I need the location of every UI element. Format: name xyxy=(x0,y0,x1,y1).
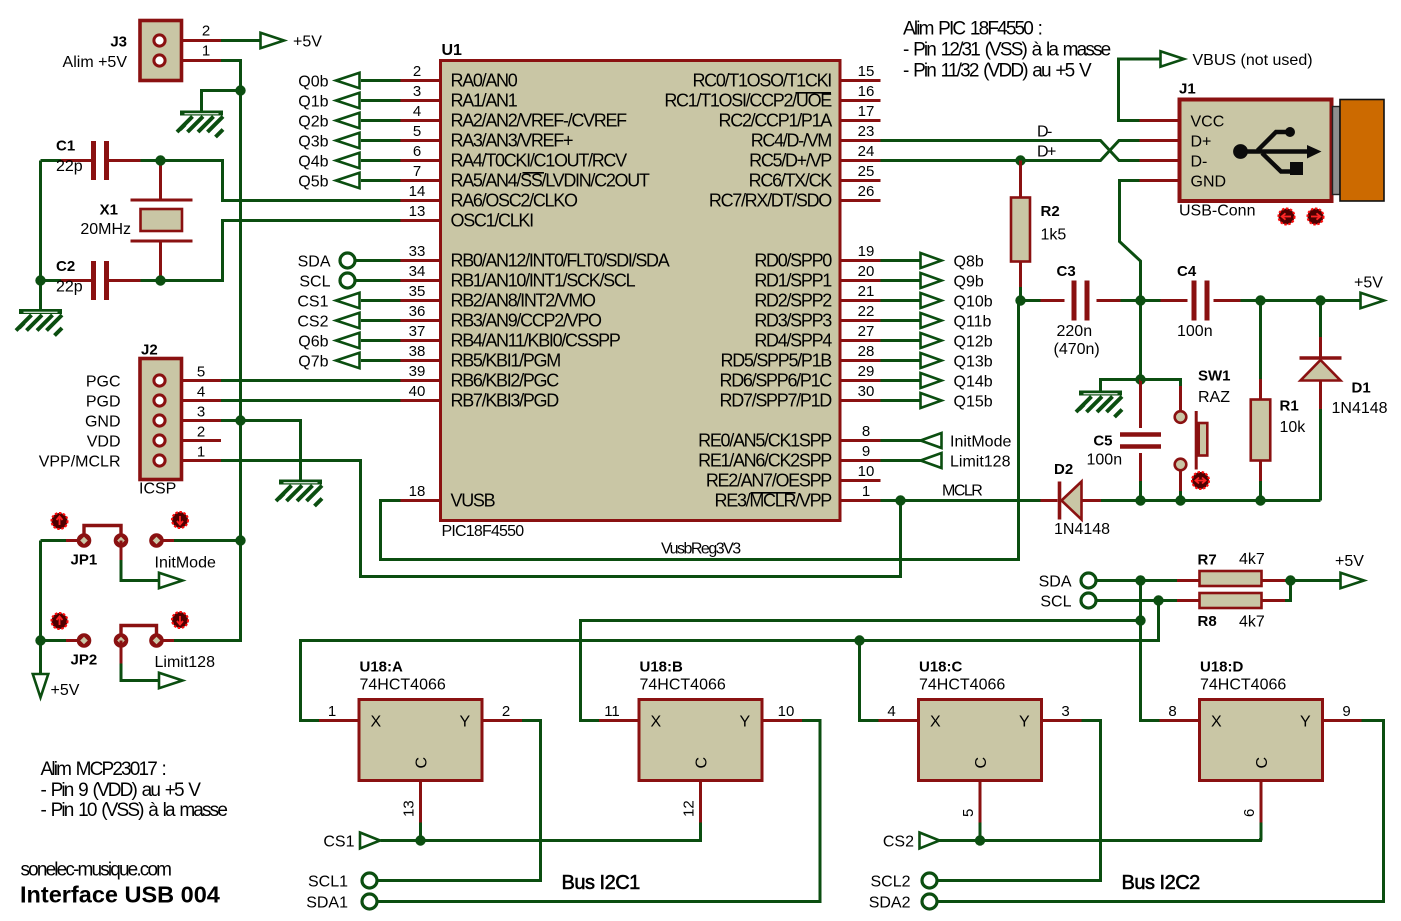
svg-text:+5V: +5V xyxy=(293,34,322,51)
svg-text:C: C xyxy=(414,757,431,769)
svg-text:RB5/KBI1/PGM: RB5/KBI1/PGM xyxy=(451,351,561,371)
svg-text:4k7: 4k7 xyxy=(1239,551,1265,568)
svg-text:D+: D+ xyxy=(1191,134,1212,151)
svg-text:Q13b: Q13b xyxy=(954,354,993,371)
svg-text:5: 5 xyxy=(197,364,205,381)
svg-text:3: 3 xyxy=(1061,703,1069,720)
svg-text:1k5: 1k5 xyxy=(1041,227,1067,244)
svg-text:X1: X1 xyxy=(100,202,118,219)
svg-text:7: 7 xyxy=(413,163,421,180)
svg-text:10k: 10k xyxy=(1280,419,1307,436)
svg-text:Q14b: Q14b xyxy=(954,374,993,391)
svg-text:22p: 22p xyxy=(56,158,83,175)
svg-text:X: X xyxy=(371,714,382,731)
svg-text:C5: C5 xyxy=(1093,433,1112,450)
svg-text:J3: J3 xyxy=(110,34,127,51)
svg-text:D1: D1 xyxy=(1352,380,1371,397)
svg-text:RC5/D+/VP: RC5/D+/VP xyxy=(749,151,832,171)
svg-text:18: 18 xyxy=(409,483,426,500)
svg-text:U18:D: U18:D xyxy=(1200,659,1244,676)
svg-text:PGD: PGD xyxy=(86,394,121,411)
svg-text:RE1/AN6/CK2SPP: RE1/AN6/CK2SPP xyxy=(698,451,832,471)
svg-text:OSC1/CLKI: OSC1/CLKI xyxy=(451,211,534,231)
svg-text:5: 5 xyxy=(413,123,421,140)
svg-text:Interface USB 004: Interface USB 004 xyxy=(20,882,220,908)
svg-text:Q15b: Q15b xyxy=(954,394,993,411)
svg-text:Y: Y xyxy=(1019,714,1030,731)
svg-text:5: 5 xyxy=(960,809,977,817)
svg-text:Alim MCP23017 :: Alim MCP23017 : xyxy=(41,759,166,780)
svg-text:9: 9 xyxy=(862,443,870,460)
svg-text:SCL: SCL xyxy=(1040,594,1071,611)
svg-text:J2: J2 xyxy=(141,342,158,359)
svg-text:RAZ: RAZ xyxy=(1198,389,1230,406)
svg-text:22p: 22p xyxy=(56,279,83,296)
svg-text:Q3b: Q3b xyxy=(298,134,328,151)
svg-text:SCL: SCL xyxy=(299,274,330,291)
svg-text:1: 1 xyxy=(328,703,336,720)
svg-text:SDA: SDA xyxy=(1039,574,1072,591)
svg-text:R2: R2 xyxy=(1041,203,1060,220)
svg-text:RD4/SPP4: RD4/SPP4 xyxy=(754,331,832,351)
svg-text:SCL2: SCL2 xyxy=(870,874,910,891)
svg-text:RD0/SPP0: RD0/SPP0 xyxy=(754,251,832,271)
svg-text:27: 27 xyxy=(858,323,875,340)
svg-text:16: 16 xyxy=(858,83,875,100)
svg-text:C2: C2 xyxy=(56,258,75,275)
svg-text:8: 8 xyxy=(1168,703,1176,720)
svg-text:RB1/AN10/INT1/SCK/SCL: RB1/AN10/INT1/SCK/SCL xyxy=(451,271,636,291)
svg-text:4: 4 xyxy=(197,384,205,401)
svg-text:VCC: VCC xyxy=(1191,114,1225,131)
svg-text:X: X xyxy=(930,714,941,731)
svg-text:26: 26 xyxy=(858,183,875,200)
svg-text:RA0/AN0: RA0/AN0 xyxy=(451,71,518,91)
svg-text:CS2: CS2 xyxy=(883,834,914,851)
svg-text:38: 38 xyxy=(409,343,426,360)
svg-text:+5V: +5V xyxy=(51,682,80,699)
svg-text:74HCT4066: 74HCT4066 xyxy=(360,677,446,694)
svg-text:RB4/AN11/KBI0/CSSPP: RB4/AN11/KBI0/CSSPP xyxy=(451,331,621,351)
svg-text:PGC: PGC xyxy=(86,374,121,391)
svg-text:2: 2 xyxy=(202,23,210,40)
svg-text:4: 4 xyxy=(887,703,895,720)
svg-text:+5V: +5V xyxy=(1335,553,1364,570)
svg-text:1N4148: 1N4148 xyxy=(1054,521,1110,538)
svg-text:GND: GND xyxy=(85,414,121,431)
svg-text:- Pin 9 (VDD) au +5 V: - Pin 9 (VDD) au +5 V xyxy=(41,780,202,801)
svg-text:Q1b: Q1b xyxy=(298,94,328,111)
svg-text:25: 25 xyxy=(858,163,875,180)
svg-text:74HCT4066: 74HCT4066 xyxy=(919,677,1005,694)
svg-text:15: 15 xyxy=(858,63,875,80)
svg-text:VusbReg3V3: VusbReg3V3 xyxy=(661,541,741,558)
svg-text:D-: D- xyxy=(1037,124,1052,141)
svg-text:CS1: CS1 xyxy=(297,294,328,311)
svg-text:29: 29 xyxy=(858,363,875,380)
svg-text:2: 2 xyxy=(197,424,205,441)
svg-text:2: 2 xyxy=(413,63,421,80)
svg-text:Q9b: Q9b xyxy=(954,274,984,291)
svg-text:33: 33 xyxy=(409,243,426,260)
svg-text:Q0b: Q0b xyxy=(298,74,328,91)
svg-text:Alim +5V: Alim +5V xyxy=(63,54,128,71)
svg-text:RD5/SPP5/P1B: RD5/SPP5/P1B xyxy=(721,351,833,371)
svg-text:RC7/RX/DT/SDO: RC7/RX/DT/SDO xyxy=(709,191,832,211)
svg-text:Y: Y xyxy=(1300,714,1311,731)
svg-text:JP2: JP2 xyxy=(71,652,98,669)
svg-text:10: 10 xyxy=(858,463,875,480)
svg-text:24: 24 xyxy=(858,143,875,160)
svg-text:Q4b: Q4b xyxy=(298,154,328,171)
svg-text:Q7b: Q7b xyxy=(298,354,328,371)
svg-text:Q8b: Q8b xyxy=(954,254,984,271)
svg-text:InitMode: InitMode xyxy=(950,434,1011,451)
svg-text:220n: 220n xyxy=(1057,323,1093,340)
svg-text:RA6/OSC2/CLKO: RA6/OSC2/CLKO xyxy=(451,191,578,211)
svg-text:1: 1 xyxy=(862,483,870,500)
svg-text:C: C xyxy=(1254,757,1271,769)
svg-text:SCL1: SCL1 xyxy=(308,874,348,891)
svg-text:Q10b: Q10b xyxy=(954,294,993,311)
svg-text:13: 13 xyxy=(401,800,418,817)
svg-text:RB6/KBI2/PGC: RB6/KBI2/PGC xyxy=(451,371,560,391)
svg-text:20MHz: 20MHz xyxy=(80,221,131,238)
svg-text:3: 3 xyxy=(413,83,421,100)
svg-text:RE2/AN7/OESPP: RE2/AN7/OESPP xyxy=(706,471,832,491)
svg-text:sonelec-musique.com: sonelec-musique.com xyxy=(21,860,172,881)
svg-text:J1: J1 xyxy=(1179,81,1196,98)
svg-text:4: 4 xyxy=(413,103,421,120)
svg-text:SDA1: SDA1 xyxy=(306,895,348,912)
svg-text:20: 20 xyxy=(858,263,875,280)
svg-text:100n: 100n xyxy=(1087,452,1123,469)
svg-text:CS1: CS1 xyxy=(323,834,354,851)
svg-text:CS2: CS2 xyxy=(297,314,328,331)
svg-text:- Pin 11/32 (VDD) au +5 V: - Pin 11/32 (VDD) au +5 V xyxy=(903,61,1092,82)
svg-text:X: X xyxy=(1211,714,1222,731)
svg-text:U18:B: U18:B xyxy=(640,659,684,676)
svg-text:11: 11 xyxy=(604,703,620,720)
svg-text:RD7/SPP7/P1D: RD7/SPP7/P1D xyxy=(720,391,833,411)
svg-text:28: 28 xyxy=(858,343,875,360)
svg-text:74HCT4066: 74HCT4066 xyxy=(1200,677,1286,694)
svg-text:RC2/CCP1/P1A: RC2/CCP1/P1A xyxy=(719,111,833,131)
svg-text:R7: R7 xyxy=(1198,552,1217,569)
svg-text:1: 1 xyxy=(202,43,210,60)
svg-text:R1: R1 xyxy=(1280,398,1299,415)
svg-text:12: 12 xyxy=(681,800,698,817)
svg-text:Q11b: Q11b xyxy=(954,314,992,331)
svg-text:RD3/SPP3: RD3/SPP3 xyxy=(754,311,832,331)
svg-text:SW1: SW1 xyxy=(1198,368,1231,385)
svg-text:PIC18F4550: PIC18F4550 xyxy=(442,523,525,540)
svg-text:+5V: +5V xyxy=(1354,275,1383,292)
svg-text:21: 21 xyxy=(858,283,875,300)
svg-text:C4: C4 xyxy=(1177,263,1197,280)
svg-text:D+: D+ xyxy=(1037,144,1056,161)
svg-text:40: 40 xyxy=(409,383,426,400)
svg-text:- Pin 10 (VSS) à la masse: - Pin 10 (VSS) à la masse xyxy=(41,800,228,821)
svg-text:14: 14 xyxy=(409,183,426,200)
svg-text:RA3/AN3/VREF+: RA3/AN3/VREF+ xyxy=(451,131,573,151)
svg-text:(470n): (470n) xyxy=(1054,341,1100,358)
svg-text:100n: 100n xyxy=(1177,323,1213,340)
svg-text:RA5/AN4/SS/LVDIN/C2OUT: RA5/AN4/SS/LVDIN/C2OUT xyxy=(451,171,650,191)
svg-text:Bus I2C1: Bus I2C1 xyxy=(562,872,641,894)
svg-text:RE0/AN5/CK1SPP: RE0/AN5/CK1SPP xyxy=(698,431,832,451)
svg-text:SDA2: SDA2 xyxy=(869,895,911,912)
svg-text:RB7/KBI3/PGD: RB7/KBI3/PGD xyxy=(451,391,560,411)
svg-text:Limit128: Limit128 xyxy=(155,654,216,671)
svg-text:D-: D- xyxy=(1191,154,1208,171)
svg-text:D2: D2 xyxy=(1054,461,1073,478)
svg-text:34: 34 xyxy=(409,263,426,280)
svg-text:36: 36 xyxy=(409,303,426,320)
svg-text:13: 13 xyxy=(409,203,426,220)
svg-text:RA1/AN1: RA1/AN1 xyxy=(451,91,518,111)
svg-text:ICSP: ICSP xyxy=(139,481,176,498)
svg-text:23: 23 xyxy=(858,123,875,140)
svg-text:6: 6 xyxy=(413,143,421,160)
svg-text:RD1/SPP1: RD1/SPP1 xyxy=(754,271,832,291)
svg-text:RC0/T1OSO/T1CKI: RC0/T1OSO/T1CKI xyxy=(692,71,831,91)
svg-text:74HCT4066: 74HCT4066 xyxy=(640,677,726,694)
svg-text:GND: GND xyxy=(1191,174,1227,191)
svg-text:Q12b: Q12b xyxy=(954,334,993,351)
svg-text:Y: Y xyxy=(740,714,751,731)
svg-text:RB3/AN9/CCP2/VPO: RB3/AN9/CCP2/VPO xyxy=(451,311,603,331)
svg-text:4k7: 4k7 xyxy=(1239,614,1265,631)
svg-text:JP1: JP1 xyxy=(71,552,98,569)
svg-text:Bus I2C2: Bus I2C2 xyxy=(1122,872,1201,894)
svg-text:VDD: VDD xyxy=(87,434,121,451)
svg-text:- Pin 12/31 (VSS) à la masse: - Pin 12/31 (VSS) à la masse xyxy=(903,40,1111,61)
svg-text:RD2/SPP2: RD2/SPP2 xyxy=(754,291,832,311)
svg-text:InitMode: InitMode xyxy=(155,555,216,572)
svg-text:VBUS (not used): VBUS (not used) xyxy=(1193,52,1313,69)
svg-text:C3: C3 xyxy=(1057,263,1076,280)
svg-text:Alim PIC 18F4550 :: Alim PIC 18F4550 : xyxy=(903,19,1042,40)
svg-text:C1: C1 xyxy=(56,138,75,155)
svg-text:2: 2 xyxy=(502,703,510,720)
svg-text:8: 8 xyxy=(862,423,870,440)
svg-text:RC6/TX/CK: RC6/TX/CK xyxy=(749,171,833,191)
svg-text:Y: Y xyxy=(460,714,471,731)
svg-text:VUSB: VUSB xyxy=(451,491,496,511)
svg-text:R8: R8 xyxy=(1198,613,1217,630)
svg-text:17: 17 xyxy=(858,103,875,120)
svg-text:U18:C: U18:C xyxy=(919,659,963,676)
svg-text:6: 6 xyxy=(1241,809,1258,817)
svg-text:3: 3 xyxy=(197,404,205,421)
svg-text:19: 19 xyxy=(858,243,875,260)
svg-text:RD6/SPP6/P1C: RD6/SPP6/P1C xyxy=(720,371,833,391)
svg-text:RA2/AN2/VREF-/CVREF: RA2/AN2/VREF-/CVREF xyxy=(451,111,628,131)
svg-text:U1: U1 xyxy=(442,42,463,59)
svg-text:RC4/D-/VM: RC4/D-/VM xyxy=(751,131,832,151)
svg-text:10: 10 xyxy=(778,703,795,720)
svg-text:35: 35 xyxy=(409,283,426,300)
svg-text:VPP/MCLR: VPP/MCLR xyxy=(39,454,121,471)
svg-text:Limit128: Limit128 xyxy=(950,454,1011,471)
svg-text:1: 1 xyxy=(197,444,205,461)
svg-text:U18:A: U18:A xyxy=(360,659,404,676)
svg-text:Q6b: Q6b xyxy=(298,334,328,351)
svg-text:37: 37 xyxy=(409,323,426,340)
svg-text:30: 30 xyxy=(858,383,875,400)
svg-text:22: 22 xyxy=(858,303,875,320)
svg-text:C: C xyxy=(694,757,711,769)
svg-text:C: C xyxy=(973,757,990,769)
svg-text:Q2b: Q2b xyxy=(298,114,328,131)
svg-text:RA4/T0CKI/C1OUT/RCV: RA4/T0CKI/C1OUT/RCV xyxy=(451,151,628,171)
svg-text:X: X xyxy=(651,714,662,731)
svg-text:9: 9 xyxy=(1342,703,1350,720)
svg-text:RB0/AN12/INT0/FLT0/SDI/SDA: RB0/AN12/INT0/FLT0/SDI/SDA xyxy=(451,251,670,271)
svg-text:RB2/AN8/INT2/VMO: RB2/AN8/INT2/VMO xyxy=(451,291,597,311)
svg-text:USB-Conn: USB-Conn xyxy=(1179,203,1255,220)
svg-text:MCLR: MCLR xyxy=(942,483,982,500)
svg-text:SDA: SDA xyxy=(298,254,331,271)
svg-text:39: 39 xyxy=(409,363,426,380)
svg-text:1N4148: 1N4148 xyxy=(1332,400,1388,417)
svg-text:Q5b: Q5b xyxy=(298,174,328,191)
